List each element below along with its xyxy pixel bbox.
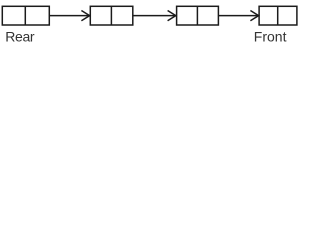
node 3 divider xyxy=(196,6,198,25)
svg-text:Front: Front xyxy=(254,29,287,45)
wire arrow 2 shaft xyxy=(133,15,176,17)
wire arrow 1 shaft xyxy=(49,15,89,17)
wire arrow 2 head xyxy=(168,11,176,21)
node 4 divider xyxy=(277,6,279,25)
svg-text:Rear: Rear xyxy=(5,29,35,45)
wire arrow 1 head xyxy=(81,11,89,21)
node 4 (Front) box xyxy=(259,6,297,25)
wire arrow 3 shaft xyxy=(218,15,258,17)
node 2 divider xyxy=(110,6,112,25)
node 1 divider xyxy=(24,6,26,25)
wire arrow 3 head xyxy=(250,11,258,21)
node 1 (Rear) box xyxy=(2,6,49,25)
node 2 box xyxy=(90,6,133,25)
node 3 box xyxy=(177,6,219,25)
